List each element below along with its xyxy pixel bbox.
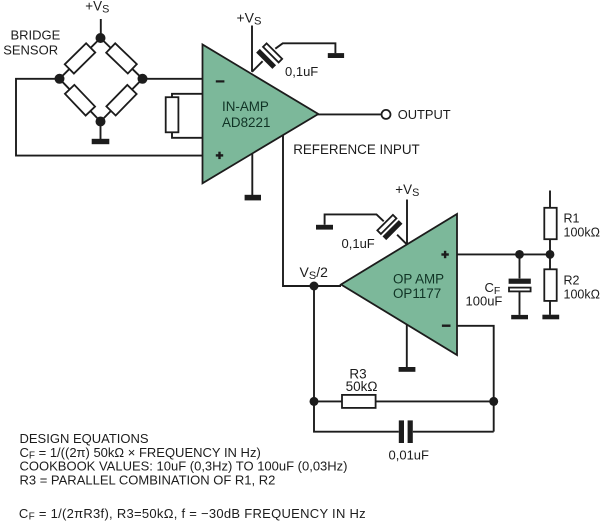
label REFERENCE INPUT [293, 142, 419, 157]
svg-text:0,1uF: 0,1uF [342, 236, 375, 251]
capacitor C2 0,1uF (op-amp decoupling) [325, 214, 407, 244]
wire +VS stem to op-amp top [406, 200, 408, 245]
ground (R2) [542, 315, 559, 320]
svg-text:R1: R1 [564, 212, 580, 226]
capacitor C1 0,1uF (in-amp decoupling) [252, 43, 335, 72]
wire bridge bottom to ground [100, 122, 102, 140]
bridge resistor (top-left arm) [65, 43, 95, 73]
design equations text block [19, 431, 366, 522]
op-amp negative input marker [442, 325, 451, 327]
wire R3 row [314, 400, 494, 402]
power +VS (bridge supply) [85, 0, 109, 16]
svg-text:R3 = PARALLEL COMBINATION OF R: R3 = PARALLEL COMBINATION OF R1, R2 [20, 472, 276, 487]
node feedback right junction [489, 397, 498, 406]
label CF 100uF [466, 280, 503, 309]
label 0,1uF (op-amp cap) [342, 236, 375, 251]
svg-text:CF = 1/(2πR3f), R3=50kΩ, f = −: CF = 1/(2πR3f), R3=50kΩ, f = −30dB FREQU… [19, 506, 366, 523]
svg-text:50kΩ: 50kΩ [346, 379, 378, 394]
resistor R1 [544, 208, 556, 239]
in-amp labels IN-AMP AD8221 [222, 99, 270, 130]
wire RG bracket [172, 94, 203, 138]
svg-text:100kΩ: 100kΩ [564, 287, 600, 301]
in-amp negative input marker [216, 80, 225, 82]
bridge resistor (top-right arm) [106, 43, 137, 73]
label R1 100k [564, 212, 600, 240]
wire VS/2 node down to R3 [313, 286, 315, 401]
svg-text:R2: R2 [564, 273, 580, 287]
wire op-amp ground pin [406, 324, 408, 367]
gain resistor RG [166, 97, 179, 132]
ground (in-amp) [245, 195, 261, 201]
bridge resistor (bottom-right arm) [106, 85, 136, 116]
resistor R3 [342, 395, 376, 408]
node CF junction [515, 250, 524, 259]
svg-text:100kΩ: 100kΩ [564, 226, 600, 240]
wire op-amp positive input to divider [457, 253, 550, 255]
node bridge bottom [96, 117, 106, 127]
label OUTPUT [398, 107, 451, 122]
svg-text:OP1177: OP1177 [393, 286, 441, 301]
in-amp U1 AD8221 [203, 45, 319, 184]
svg-text:BRIDGE: BRIDGE [11, 28, 61, 43]
svg-text:AD8221: AD8221 [222, 115, 270, 130]
ground (op-amp) [399, 367, 416, 372]
ground (CF) [511, 315, 528, 319]
label R3 50k [346, 366, 378, 393]
svg-text:OUTPUT: OUTPUT [398, 107, 451, 122]
capacitor CF 100uF [509, 254, 531, 315]
capacitor C3 0,01uF [399, 420, 413, 443]
power +VS (op-amp supply) [395, 182, 419, 199]
svg-text:0,1uF: 0,1uF [285, 64, 318, 79]
ground (bridge) [92, 139, 110, 144]
node R3 left junction [310, 397, 319, 406]
wire bridge right node to in-amp negative input [143, 78, 203, 80]
op-amp positive input marker [441, 251, 448, 258]
wire bridge left node to in-amp positive input [16, 79, 203, 156]
op-amp labels OP AMP OP1177 [393, 272, 444, 301]
label 0,1uF (in-amp cap) [285, 64, 318, 79]
svg-text:OP AMP: OP AMP [393, 272, 444, 287]
node bridge left [55, 74, 65, 84]
wire in-amp ground pin [251, 154, 253, 195]
node bridge right [138, 74, 148, 84]
svg-text:100uF: 100uF [466, 294, 503, 309]
node bridge top [96, 33, 106, 43]
wire +VS stem to in-amp top [251, 26, 253, 72]
label BRIDGE SENSOR [3, 28, 60, 58]
bridge resistor (bottom-left arm) [65, 85, 95, 116]
ground (op-amp cap) [316, 225, 333, 230]
node VS/2 junction [310, 282, 319, 291]
label R2 100k [564, 273, 600, 301]
wire bridge diamond edges [60, 38, 143, 122]
wire bottom branch to 0,01uF [314, 401, 494, 431]
node R1-R2 junction [546, 250, 555, 259]
wire reference input to VS/2 node [283, 135, 341, 286]
resistor R2 [544, 254, 556, 314]
label VS/2 [300, 264, 329, 282]
in-amp positive input marker [216, 152, 223, 159]
svg-text:0,01uF: 0,01uF [389, 447, 430, 462]
op-amp U2 OP1177 [341, 214, 457, 355]
label 0,01uF [389, 447, 430, 462]
svg-text:SENSOR: SENSOR [3, 42, 58, 57]
wire +VS stem to bridge top [100, 19, 102, 38]
power +VS (in-amp supply) [237, 10, 262, 28]
wire R1 top stub [549, 191, 551, 208]
svg-text:REFERENCE INPUT: REFERENCE INPUT [293, 142, 419, 157]
wire R1 bottom [549, 239, 551, 254]
wire op-amp negative input feedback [457, 326, 494, 432]
wire in-amp output [318, 113, 382, 115]
output terminal circle [382, 110, 391, 119]
ground (in-amp cap) [328, 53, 344, 58]
svg-text:IN-AMP: IN-AMP [222, 99, 269, 114]
